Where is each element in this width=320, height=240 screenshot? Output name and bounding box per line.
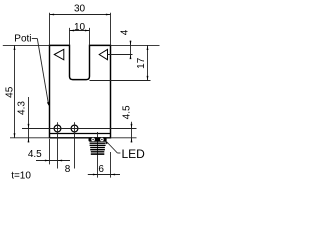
optical axis line to right [108, 54, 133, 56]
svg-text:4.5: 4.5 [28, 149, 42, 160]
extension line bottom edge right [111, 137, 137, 139]
connector flange [89, 137, 107, 141]
LED leader line [106, 142, 117, 154]
extension line top-left corner up [49, 13, 51, 46]
svg-text:4.3: 4.3 [16, 101, 27, 115]
connector body band [90, 143, 106, 144]
svg-text:10: 10 [74, 22, 86, 33]
mounting hole left [54, 125, 61, 132]
dimension 4.5/8 chain line [36, 160, 70, 162]
dimension 4.5 right line [131, 122, 133, 143]
extension line top-right corner up [110, 13, 112, 46]
Poti leader dash [32, 38, 38, 40]
svg-text:8: 8 [65, 164, 71, 175]
LED lens right [100, 138, 104, 142]
LED lens left [91, 138, 95, 142]
dimension 17 line [147, 45, 149, 80]
receiver triangle right arm [99, 49, 107, 59]
step line near bottom of body [50, 133, 111, 135]
extension line slot bottom to right [90, 80, 151, 82]
svg-text:Poti: Poti [14, 34, 31, 45]
extension line body left edge down [49, 139, 51, 164]
hole centerline horizontal [22, 128, 137, 130]
hole left vertical centerline [57, 122, 59, 168]
extension line top edge to right [111, 44, 160, 46]
svg-text:LED: LED [122, 147, 146, 161]
svg-text:t=10: t=10 [11, 170, 31, 181]
mounting hole right [71, 125, 78, 132]
dimension 6 line [88, 174, 120, 176]
dimension 10 line [70, 30, 90, 32]
LED leader arrowhead [105, 140, 108, 144]
dimension 4 line (top to optical axis) [130, 41, 132, 59]
dimension 45 line [14, 45, 16, 137]
svg-text:45: 45 [5, 86, 16, 98]
svg-text:17: 17 [136, 57, 147, 69]
connector centerline [97, 132, 99, 178]
dimension 4.3 line [28, 97, 30, 142]
svg-text:4.5: 4.5 [122, 105, 133, 119]
svg-text:4: 4 [119, 29, 130, 35]
svg-text:6: 6 [98, 164, 104, 175]
extension line slot-left up [69, 28, 71, 46]
extension line top edge to left [3, 44, 50, 46]
connector end cap [91, 151, 105, 152]
Poti leader arrowhead [47, 102, 49, 107]
sensor body outline with U-slot [50, 45, 111, 137]
svg-text:30: 30 [74, 4, 86, 15]
extension line bottom edge left [10, 137, 50, 139]
dimension 30 line [50, 14, 111, 16]
Poti leader line [37, 39, 48, 105]
connector thread band [90, 147, 105, 148]
extension line slot-right up [89, 28, 91, 46]
extension body right edge down [110, 152, 112, 178]
hole right vertical centerline [74, 122, 76, 168]
emitter triangle left arm [54, 49, 64, 60]
